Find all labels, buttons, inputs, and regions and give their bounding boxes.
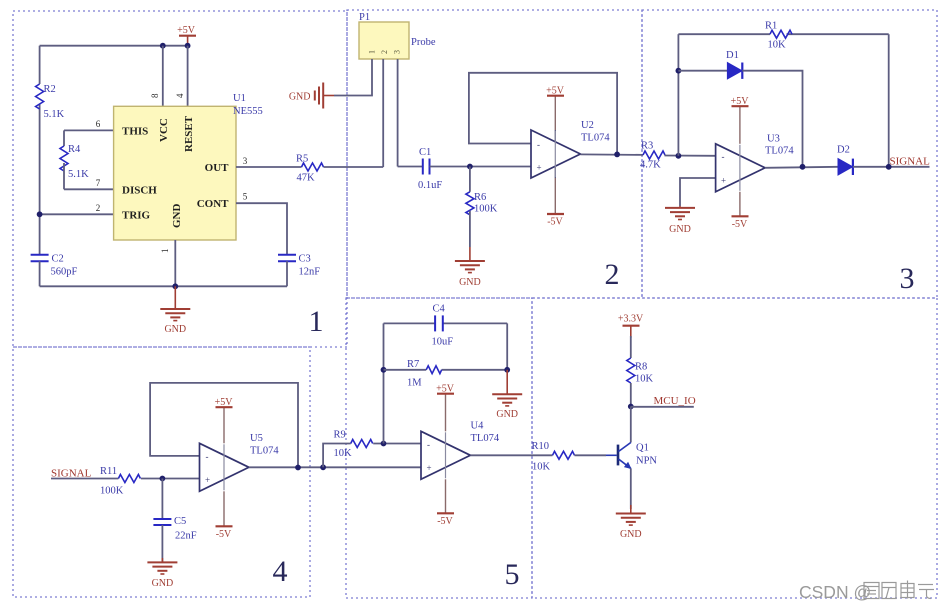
power +5V (U5) bbox=[215, 397, 234, 443]
svg-text:THIS: THIS bbox=[122, 126, 148, 138]
svg-text:+: + bbox=[427, 463, 432, 473]
node junction R9 branch bbox=[320, 464, 326, 470]
capacitor C5 22nF bbox=[153, 516, 196, 542]
svg-text:DISCH: DISCH bbox=[122, 185, 157, 197]
wire C4 top feedback bbox=[384, 322, 435, 324]
wire U3 output to D2 bbox=[765, 167, 838, 168]
wire OUT pin3 to R5 bbox=[236, 166, 302, 168]
svg-text:5.1K: 5.1K bbox=[68, 169, 89, 180]
node junction minus input / feedback bbox=[381, 441, 387, 447]
svg-text:C4: C4 bbox=[433, 304, 446, 315]
capacitor C2 560pF bbox=[31, 254, 78, 278]
capacitor C3 12nF bbox=[278, 254, 320, 278]
svg-text:TL074: TL074 bbox=[250, 446, 279, 457]
svg-text:+3.3V: +3.3V bbox=[618, 314, 644, 325]
wire D1 anode lead bbox=[678, 70, 727, 72]
svg-text:R3: R3 bbox=[641, 141, 653, 152]
transistor Q1 NPN bbox=[618, 443, 657, 469]
resistor R5 47K bbox=[296, 154, 324, 184]
svg-text:OUT: OUT bbox=[205, 162, 230, 174]
watermark CSDN @医疗电子 bbox=[799, 581, 934, 603]
svg-text:CONT: CONT bbox=[197, 198, 229, 210]
power -5V (U5) bbox=[216, 491, 233, 540]
power +5V (U4) bbox=[436, 384, 455, 432]
resistor R11 100K bbox=[100, 466, 140, 497]
dashed block frame 1 (555 oscillator) bbox=[13, 11, 347, 347]
wire U5 output bbox=[249, 466, 421, 468]
wire pin4 drop bbox=[187, 46, 189, 107]
power +5V (U2) bbox=[546, 86, 565, 131]
svg-text:0.1uF: 0.1uF bbox=[418, 180, 442, 191]
power +5V (box 1) bbox=[177, 25, 196, 46]
svg-text:4: 4 bbox=[175, 93, 185, 98]
ground GND (C5) bbox=[147, 558, 177, 589]
svg-text:U1: U1 bbox=[233, 93, 246, 104]
svg-text:Probe: Probe bbox=[411, 37, 436, 48]
node junction MCU_IO bbox=[628, 404, 634, 410]
wire R8 bottom lead bbox=[630, 383, 632, 407]
svg-text:GND: GND bbox=[152, 578, 174, 589]
wire R1 right drop bbox=[888, 34, 890, 166]
node junction VCC rail / pin8 bbox=[160, 43, 166, 49]
svg-text:GND: GND bbox=[459, 277, 481, 288]
node junction VCC rail / pin4 bbox=[185, 43, 191, 49]
wire R6 top lead bbox=[469, 167, 471, 192]
svg-text:-5V: -5V bbox=[547, 217, 563, 228]
wire R5 to probe pin2 bbox=[324, 166, 384, 168]
svg-text:10uF: 10uF bbox=[432, 337, 454, 348]
svg-text:C3: C3 bbox=[299, 254, 311, 265]
svg-text:C1: C1 bbox=[419, 147, 431, 158]
wire DISCH pin7 bbox=[64, 188, 114, 190]
svg-text:R6: R6 bbox=[474, 192, 486, 203]
svg-text:2: 2 bbox=[380, 50, 389, 54]
wire R4 bottom lead bbox=[63, 163, 65, 189]
wire C4 right drop bbox=[506, 323, 508, 369]
wire Q1 collector bbox=[630, 407, 632, 443]
svg-text:10K: 10K bbox=[334, 448, 353, 459]
wire R10 to Q1 base bbox=[575, 454, 607, 456]
node junction D1 branch bbox=[676, 68, 682, 74]
wire U2 output bbox=[580, 153, 643, 156]
wire C2 bottom lead bbox=[39, 261, 41, 286]
svg-text:U2: U2 bbox=[581, 120, 594, 131]
svg-text:10K: 10K bbox=[768, 40, 787, 51]
svg-text:4.7K: 4.7K bbox=[640, 160, 661, 171]
svg-text:-: - bbox=[537, 140, 540, 150]
resistor R2 5.1K bbox=[36, 84, 65, 120]
svg-text:R10: R10 bbox=[532, 441, 550, 452]
svg-text:P1: P1 bbox=[359, 12, 370, 23]
power +5V (U3) bbox=[731, 96, 750, 144]
svg-text:MCU_IO: MCU_IO bbox=[654, 395, 696, 407]
node junction ground rail bbox=[172, 283, 178, 289]
dashed block frame 4 (signal buffer) bbox=[13, 347, 310, 597]
wire CONT pin5 bbox=[236, 203, 287, 254]
svg-text:GND: GND bbox=[620, 529, 642, 540]
wire ground rail bottom (box 1) bbox=[40, 285, 287, 287]
svg-text:+5V: +5V bbox=[215, 397, 234, 408]
wire R7 row bbox=[384, 369, 427, 371]
node junction R11 / C5 bbox=[160, 476, 166, 482]
svg-text:U5: U5 bbox=[250, 433, 263, 444]
wire U1 GND pin drop bbox=[174, 240, 176, 286]
svg-text:1: 1 bbox=[309, 305, 324, 338]
capacitor C4 10uF bbox=[432, 304, 454, 348]
wire R9 to U4 minus input bbox=[373, 443, 421, 445]
svg-text:22nF: 22nF bbox=[175, 531, 197, 542]
svg-text:R5: R5 bbox=[296, 154, 308, 165]
svg-text:VCC: VCC bbox=[158, 118, 170, 142]
svg-text:+: + bbox=[537, 163, 542, 173]
svg-text:SIGNAL: SIGNAL bbox=[890, 156, 931, 168]
svg-text:2: 2 bbox=[605, 258, 620, 291]
resistor R6 100K bbox=[466, 192, 498, 215]
svg-text:-5V: -5V bbox=[732, 219, 748, 230]
svg-text:-: - bbox=[722, 152, 725, 162]
node junction U2 output / feedback bbox=[614, 152, 620, 158]
ground GND (probe, sideways) bbox=[289, 83, 334, 109]
node junction SIGNAL / R1 drop bbox=[886, 164, 892, 170]
svg-text:+: + bbox=[205, 475, 210, 485]
wire U3 plus input to ground bbox=[680, 178, 716, 206]
svg-text:TL074: TL074 bbox=[765, 146, 794, 157]
svg-text:-5V: -5V bbox=[216, 529, 232, 540]
power +3.3V (box 6) bbox=[618, 314, 644, 339]
wire U2 feedback loop bbox=[469, 73, 617, 155]
resistor R8 10K bbox=[627, 358, 654, 385]
node junction R7 left bbox=[381, 367, 387, 373]
dashed block frame 5 (integrator) bbox=[346, 298, 532, 598]
dashed block frame 2 (probe buffer) bbox=[347, 10, 642, 298]
node junction C1 / R6 bbox=[467, 164, 473, 170]
wire Q1 emitter drop bbox=[630, 468, 632, 509]
wire SIGNAL input to R11 bbox=[51, 478, 118, 480]
op-amp U5 TL074 bbox=[200, 433, 280, 491]
wire C5 bottom lead bbox=[161, 525, 163, 562]
svg-text:RESET: RESET bbox=[183, 115, 195, 152]
wire C5 top lead bbox=[161, 479, 163, 519]
wire P1 pin2 drop to OUT net bbox=[382, 59, 384, 167]
svg-text:5: 5 bbox=[243, 192, 248, 202]
ground GND (Q1) bbox=[616, 505, 646, 540]
svg-text:1: 1 bbox=[368, 50, 377, 54]
svg-text:10K: 10K bbox=[532, 462, 551, 473]
svg-text:TL074: TL074 bbox=[471, 433, 500, 444]
svg-text:8: 8 bbox=[150, 93, 160, 98]
svg-text:D2: D2 bbox=[837, 145, 850, 156]
wire TRIG pin2 bbox=[40, 213, 114, 215]
node junction TRIG / left rail bbox=[37, 211, 43, 217]
svg-text:100K: 100K bbox=[474, 204, 498, 215]
svg-text:12nF: 12nF bbox=[299, 267, 321, 278]
op-amp U4 TL074 bbox=[421, 421, 500, 480]
wire U4 output to R10 bbox=[470, 454, 552, 456]
svg-text:Q1: Q1 bbox=[636, 443, 649, 454]
power -5V (U3) bbox=[732, 192, 749, 230]
svg-text:3: 3 bbox=[393, 50, 402, 54]
svg-text:+5V: +5V bbox=[546, 86, 565, 97]
svg-text:+5V: +5V bbox=[177, 25, 196, 36]
resistor R7 1M bbox=[407, 359, 442, 389]
svg-text:GND: GND bbox=[164, 324, 186, 335]
power -5V (U4) bbox=[437, 479, 454, 527]
wire U5 feedback loop bbox=[150, 383, 298, 468]
svg-text:CSDN @: CSDN @ bbox=[799, 582, 871, 602]
wire P1 pin3 drop bbox=[397, 59, 399, 167]
svg-text:47K: 47K bbox=[297, 173, 316, 184]
resistor R3 4.7K bbox=[640, 141, 665, 171]
svg-text:1M: 1M bbox=[407, 378, 422, 389]
svg-text:TL074: TL074 bbox=[581, 133, 610, 144]
svg-text:5.1K: 5.1K bbox=[44, 109, 65, 120]
node junction output / D1 drop bbox=[800, 164, 806, 170]
node junction input / feedback bbox=[676, 153, 682, 159]
power -5V (U2) bbox=[547, 178, 564, 228]
wire D2 cathode to SIGNAL bbox=[853, 166, 930, 168]
op-amp U3 TL074 bbox=[716, 134, 795, 192]
svg-text:3: 3 bbox=[243, 156, 248, 166]
svg-text:GND: GND bbox=[289, 92, 311, 103]
wire feedback left rail (box 5) bbox=[383, 323, 385, 443]
svg-text:+5V: +5V bbox=[731, 96, 750, 107]
svg-text:-: - bbox=[206, 452, 209, 462]
capacitor C1 0.1uF bbox=[418, 147, 442, 191]
ground GND (box 1) bbox=[160, 286, 190, 335]
svg-text:-5V: -5V bbox=[437, 516, 453, 527]
svg-text:C2: C2 bbox=[52, 254, 64, 265]
svg-text:5: 5 bbox=[505, 558, 520, 591]
svg-text:7: 7 bbox=[96, 178, 101, 188]
wire MCU_IO stub bbox=[631, 406, 694, 408]
dashed block frame 3 (rectifier) bbox=[642, 10, 937, 298]
svg-text:GND: GND bbox=[669, 224, 691, 235]
wire THIS pin6 bbox=[64, 129, 114, 131]
wire left rail (R2 branch) bbox=[39, 46, 41, 84]
wire R8 top lead bbox=[630, 336, 632, 358]
IC U1 NE555 body bbox=[114, 93, 263, 240]
node junction U5 output / feedback bbox=[295, 465, 301, 471]
svg-text:R4: R4 bbox=[68, 144, 81, 155]
svg-text:2: 2 bbox=[96, 203, 101, 213]
svg-text:4: 4 bbox=[273, 555, 288, 588]
svg-text:GND: GND bbox=[496, 409, 518, 420]
op-amp U2 TL074 bbox=[531, 120, 610, 178]
wire R4 top lead bbox=[63, 130, 65, 146]
svg-text:10K: 10K bbox=[635, 374, 654, 385]
wire P1 pin1 to ground bbox=[334, 59, 372, 96]
svg-text:R11: R11 bbox=[100, 466, 117, 477]
node junction R7 right bbox=[504, 367, 510, 373]
wire R11 to U5 plus input bbox=[141, 478, 200, 480]
svg-text:U3: U3 bbox=[767, 134, 780, 145]
resistor R4 5.1K bbox=[60, 144, 89, 180]
svg-text:U4: U4 bbox=[471, 421, 485, 432]
ground GND (R6) bbox=[455, 247, 485, 288]
svg-text:R1: R1 bbox=[765, 21, 777, 32]
svg-text:R9: R9 bbox=[334, 430, 346, 441]
ground GND (U3) bbox=[665, 206, 695, 235]
wire feedback left rail (box 3) bbox=[677, 34, 679, 156]
diode D2 bbox=[837, 145, 853, 176]
svg-text:NPN: NPN bbox=[636, 456, 657, 467]
connector P1 Probe bbox=[359, 12, 436, 59]
svg-text:TRIG: TRIG bbox=[122, 210, 151, 222]
wire R9 branch riser bbox=[323, 444, 351, 468]
wire R3 to U3 minus input bbox=[665, 155, 716, 157]
svg-text:C5: C5 bbox=[174, 516, 186, 527]
svg-text:D1: D1 bbox=[726, 50, 739, 61]
resistor R10 10K bbox=[532, 441, 575, 473]
wire D1 cathode to output bbox=[742, 71, 802, 167]
svg-text:R8: R8 bbox=[635, 362, 647, 373]
svg-text:-: - bbox=[427, 440, 430, 450]
wire pin8 drop bbox=[162, 46, 164, 107]
svg-text:100K: 100K bbox=[100, 486, 124, 497]
svg-text:NE555: NE555 bbox=[233, 106, 263, 117]
ground GND (box 5) bbox=[492, 370, 522, 420]
wire pin3 to C1 bbox=[398, 166, 423, 168]
wire R6 bottom lead bbox=[469, 211, 471, 247]
svg-text:R7: R7 bbox=[407, 359, 419, 370]
wire C1 to U2 plus input bbox=[430, 166, 532, 168]
svg-text:R2: R2 bbox=[44, 84, 56, 95]
wire C3 bottom lead bbox=[286, 261, 288, 286]
resistor R9 10K bbox=[334, 430, 373, 460]
diode D1 bbox=[726, 50, 742, 79]
svg-text:3: 3 bbox=[900, 262, 915, 295]
wire R1 top feedback bbox=[678, 33, 770, 35]
svg-text:+: + bbox=[721, 176, 726, 186]
dashed block frame 6 (output transistor) bbox=[532, 298, 937, 598]
svg-text:GND: GND bbox=[171, 204, 183, 229]
svg-text:6: 6 bbox=[96, 119, 101, 129]
svg-text:1: 1 bbox=[160, 249, 170, 254]
svg-text:+5V: +5V bbox=[436, 384, 455, 395]
svg-text:560pF: 560pF bbox=[51, 267, 78, 278]
wire VCC rail top (box 1) bbox=[40, 45, 188, 47]
resistor R1 10K bbox=[765, 21, 792, 51]
